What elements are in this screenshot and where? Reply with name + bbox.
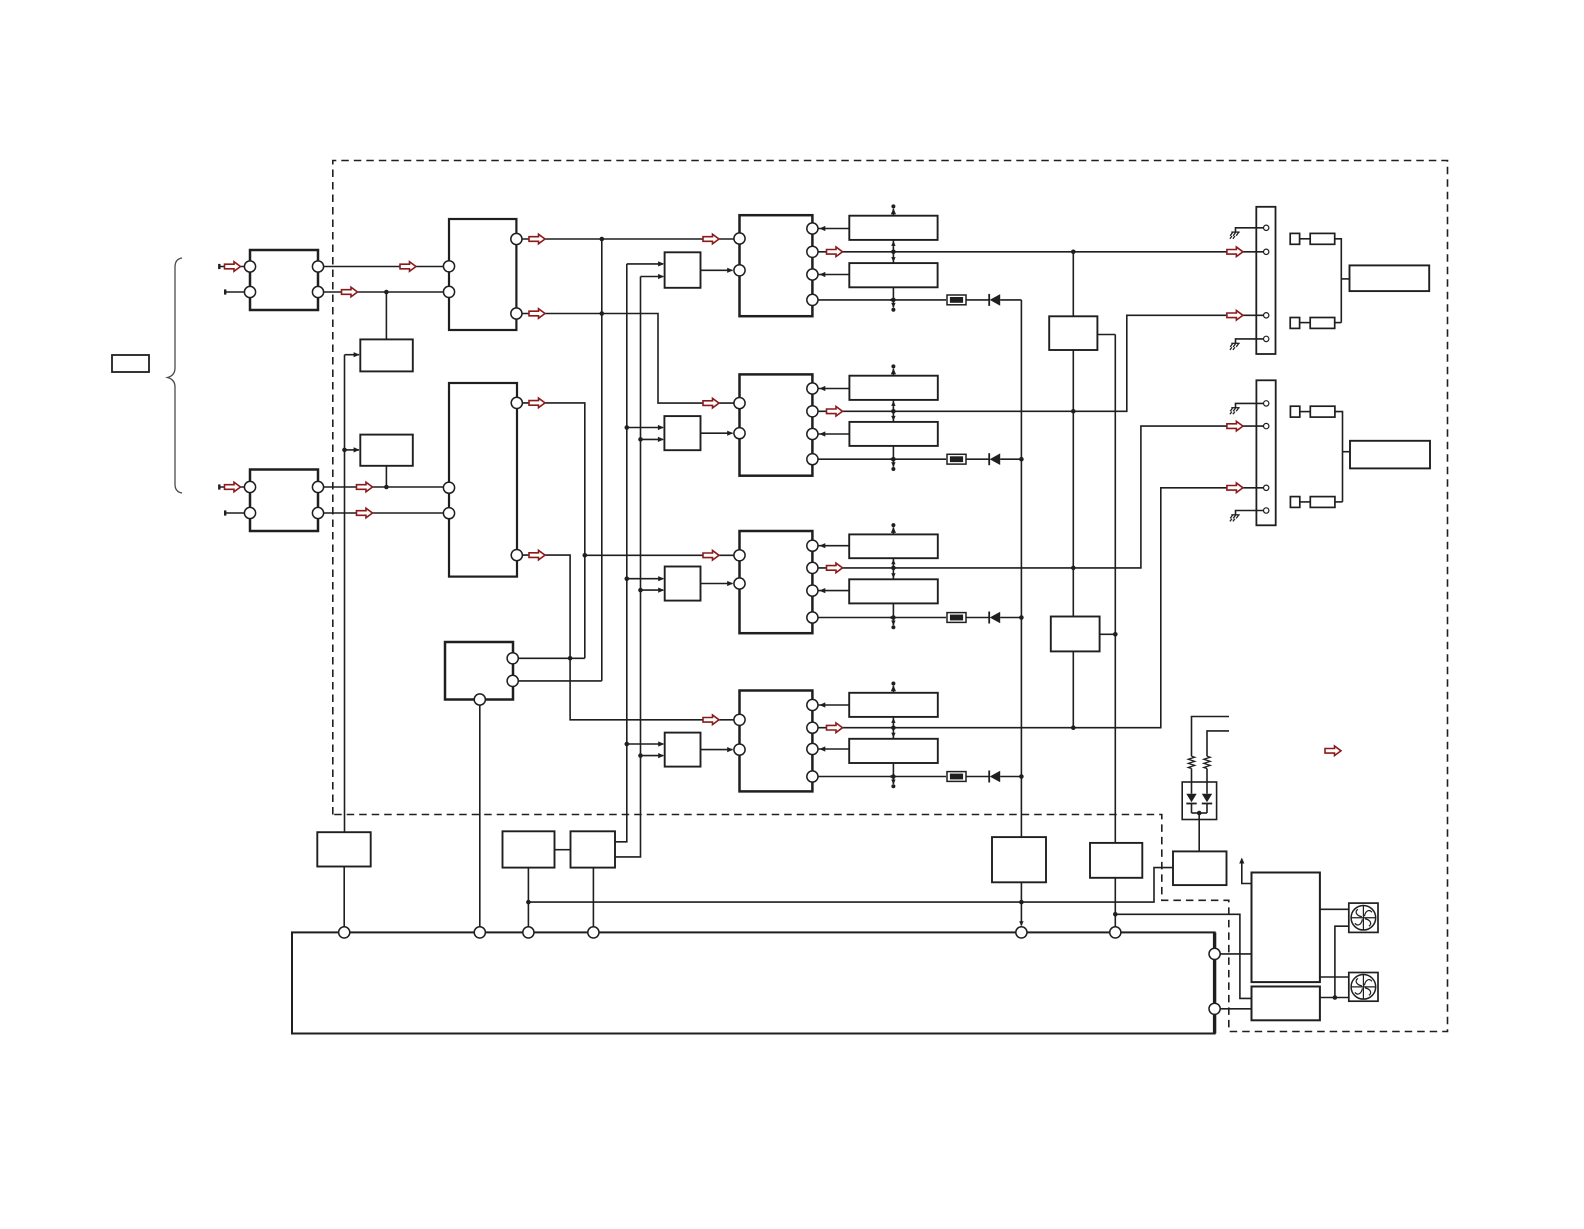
level box LA xyxy=(665,252,701,287)
IC block U2 xyxy=(449,383,517,577)
connector CN1 xyxy=(1256,207,1275,354)
wire bus1 into LB xyxy=(627,427,663,429)
wire X1 out2 to U1 bus xyxy=(518,680,602,682)
wire thermistor stub 1 xyxy=(1192,717,1230,757)
junction RB mid xyxy=(891,409,896,414)
junction bus1 row D xyxy=(625,742,630,747)
protection rail vertical xyxy=(1020,300,1022,837)
wire tap down to box S1 xyxy=(385,292,387,339)
wire K1 to fan1 xyxy=(1320,908,1349,910)
wire K1 to fan2 xyxy=(1320,976,1349,978)
wire square to resistor b xyxy=(1300,322,1311,324)
diode DC xyxy=(988,612,990,624)
junction T3a / comm line xyxy=(526,900,531,905)
junction clock bus row3 xyxy=(583,553,588,558)
wire relay2 feed xyxy=(1115,914,1251,998)
sync box S1 xyxy=(360,339,413,371)
U2 pin circles xyxy=(443,482,454,493)
wire J2 out1 to U2 xyxy=(324,486,443,488)
power stub arrow K1 xyxy=(1242,860,1252,884)
wire QD out to bead xyxy=(818,776,946,778)
junction diode pack xyxy=(1197,811,1202,816)
ground CN2 pin1 xyxy=(1230,408,1240,415)
sync box S2 xyxy=(360,435,413,466)
wire T3b to system box xyxy=(592,868,594,927)
wire LC out to QC xyxy=(701,583,733,585)
junction comm / protection rail xyxy=(1019,900,1024,905)
level box LD xyxy=(665,733,701,767)
signal arrow into J2 pin1 xyxy=(225,482,241,492)
diode DA xyxy=(988,294,990,306)
headphone box H1 xyxy=(1350,265,1430,291)
fan ctrl box T5 xyxy=(1090,843,1142,878)
junction RC low xyxy=(891,615,896,620)
J1 pin circles xyxy=(244,261,255,272)
ground CN1 pin4 xyxy=(1230,343,1240,350)
terminal square CN2 a xyxy=(1290,406,1299,417)
signal arrow QB line out xyxy=(827,407,843,417)
wire S2 to J2 out1 line xyxy=(385,466,387,487)
wire J1 input 1 xyxy=(219,266,244,268)
wire bead to diode DA xyxy=(966,299,989,301)
signal arrow after U2 top-out xyxy=(529,398,545,408)
U1 pin circles xyxy=(443,261,454,272)
wire QA line to connector CN1 xyxy=(818,251,1263,253)
wire resistor d join xyxy=(1335,501,1343,503)
resistor CN2 b xyxy=(1310,497,1335,508)
junction T5 / relay feed xyxy=(1113,912,1118,917)
signal arrow QC line out xyxy=(827,563,843,573)
wire K2 to fan2 xyxy=(1320,997,1349,999)
wire RB1 to QB pin1 xyxy=(819,388,850,390)
wire resistor b join xyxy=(1335,322,1342,324)
CN2 pin4 ground wire xyxy=(1236,511,1264,515)
level box LC xyxy=(665,567,701,601)
wire M2 out right xyxy=(1100,633,1116,635)
junction QB line / relay bus xyxy=(1071,409,1076,414)
wire bead to diode DD xyxy=(966,776,989,778)
wire system to K2 xyxy=(1220,1008,1251,1010)
input jack block J1 xyxy=(250,250,318,310)
power stub above RC1 xyxy=(892,527,894,534)
signal arrow on J2 out1 xyxy=(357,482,373,492)
wire bus2 into LC xyxy=(641,589,664,591)
junction rail row C xyxy=(1019,615,1024,620)
wire LB out to QB xyxy=(701,432,733,434)
wire RD2 to QD pin3 xyxy=(819,748,850,750)
headphone box H2 xyxy=(1350,441,1430,469)
wire bus2 into LA xyxy=(641,276,664,278)
terminal square CN1 a xyxy=(1290,233,1299,244)
comm line to relay area xyxy=(528,868,1173,903)
supply rect RA2 xyxy=(849,263,937,287)
supply rect RD2 xyxy=(849,739,938,763)
junction RD low xyxy=(891,774,896,779)
IC block U1 xyxy=(449,219,516,330)
signal arrow after U2 bottom-out xyxy=(529,550,545,560)
wire fan1 return xyxy=(1335,926,1349,997)
junction U1 out2 / bus xyxy=(600,311,605,316)
wire X1 out1 to clock bus xyxy=(518,657,585,659)
power stub above RD1 xyxy=(892,686,894,693)
signal arrow QD line out xyxy=(827,723,843,733)
junction rail row B xyxy=(1019,457,1024,462)
wire into S2 from bus xyxy=(345,449,360,451)
ground CN1 pin1 xyxy=(1230,232,1240,239)
wire square to resistor c xyxy=(1300,411,1311,413)
signal arrow into CN2 pin2 xyxy=(1227,421,1243,431)
wire bead to diode DB xyxy=(966,458,989,460)
resistor CN1 b xyxy=(1310,318,1335,329)
wire diode to rail xyxy=(1000,776,1021,778)
terminal square CN2 b xyxy=(1290,497,1299,508)
QD pin circles xyxy=(734,714,745,725)
driver IC QA xyxy=(740,215,813,316)
system box right pin circles xyxy=(1209,948,1220,959)
wire LA out to QA xyxy=(701,269,733,271)
junction clock bus block3 xyxy=(568,656,573,661)
arrowhead into S2 xyxy=(354,447,360,452)
wire QA out to bead xyxy=(818,299,946,301)
dashed boundary of main board xyxy=(333,161,1448,1032)
wire J1 out1 to U1 xyxy=(324,266,443,268)
wire RD2 bottom to out line xyxy=(892,763,894,777)
junction RC mid xyxy=(891,566,896,571)
diode DD xyxy=(988,771,990,783)
signal arrow into CN2 pin3 xyxy=(1227,483,1243,493)
diode pack box xyxy=(1182,782,1216,820)
QB pin circles xyxy=(734,398,745,409)
bus U1 to block3 xyxy=(601,239,603,681)
thermistor R2 xyxy=(1204,756,1210,768)
level box LB xyxy=(664,416,700,450)
wire R2 to diode pack xyxy=(1206,769,1208,794)
signal arrow after U1 out1 xyxy=(529,234,545,244)
junction RB low xyxy=(891,457,896,462)
vertical between RA1 RA2 xyxy=(892,240,894,263)
supply rect RA1 xyxy=(849,216,937,240)
signal arrow on J1 out1 xyxy=(400,262,416,272)
wire U2 top-out to driver C xyxy=(523,403,585,658)
supply rect RD1 xyxy=(849,693,938,717)
wire bus1 into LD xyxy=(627,743,663,745)
wire diode to rail xyxy=(1000,299,1021,301)
QA pin circles xyxy=(734,233,745,244)
wire QC out to bead xyxy=(818,617,946,619)
wire J1 input 2 xyxy=(225,291,244,293)
thermistor R1 xyxy=(1188,756,1194,768)
power stub above RB1 xyxy=(892,369,894,376)
bus J1-mute down left side xyxy=(344,355,346,833)
system box top pin circles xyxy=(339,927,350,938)
vertical between RD1 RD2 xyxy=(892,717,894,739)
QC pin circles xyxy=(734,550,745,561)
wire U1 out1 to driver A xyxy=(522,238,734,240)
wire diode to rail xyxy=(1000,617,1021,619)
diode pack join wires xyxy=(1191,804,1193,814)
junction bus1 row C xyxy=(625,576,630,581)
junction U1 out1 / bus xyxy=(600,237,605,242)
wire LD out to QD xyxy=(701,749,733,751)
junction S2 output tap xyxy=(384,485,389,490)
signal arrow before driver D in1 xyxy=(703,715,719,725)
wire resistor a to headphone box xyxy=(1335,239,1342,323)
J2 pin circles xyxy=(244,481,255,492)
wire X1 bottom to system box xyxy=(479,705,481,927)
power stub above RA1 xyxy=(892,209,894,216)
mute box M2 xyxy=(1051,617,1100,652)
relay bus through M1 xyxy=(1072,252,1074,316)
diode D6 xyxy=(1202,794,1212,803)
relay box K2 xyxy=(1252,987,1320,1021)
wire resistor c to headphone box xyxy=(1335,412,1343,502)
junction rail row D xyxy=(1019,774,1024,779)
junction M2 bus xyxy=(1113,632,1118,637)
protect box T4 xyxy=(992,837,1046,882)
connector CN2 xyxy=(1256,380,1275,525)
supply rect RC1 xyxy=(849,534,938,558)
wire T5 to system box xyxy=(1114,878,1116,927)
wire RA2 bottom to out line xyxy=(892,287,894,300)
wire QC line to CN2 pin2 xyxy=(818,426,1263,568)
diode D5 xyxy=(1186,794,1196,803)
junction bus2 row C xyxy=(638,588,643,593)
relay box K1 xyxy=(1252,873,1320,983)
signal arrow QA line out xyxy=(827,247,843,257)
resistor CN1 a xyxy=(1310,233,1335,244)
wire RA2 to QA pin3 xyxy=(819,274,850,276)
ground CN2 pin4 xyxy=(1230,515,1240,522)
junction bus2 row B xyxy=(638,437,643,442)
mute bus vertical xyxy=(1114,335,1116,843)
control bus 1 vertical xyxy=(615,264,627,842)
CN2 pin circles xyxy=(1264,401,1269,406)
wire bus2 into LB xyxy=(641,438,663,440)
wire J2 input 2 xyxy=(225,512,244,514)
wire QB out to bead xyxy=(818,458,946,460)
CN2 pin1 ground wire xyxy=(1236,403,1264,407)
signal arrow before driver A in1 xyxy=(703,234,719,244)
signal arrow on J2 out2 xyxy=(357,508,373,518)
clock block X1 xyxy=(445,642,513,700)
CN1 pin4 ground wire xyxy=(1236,339,1264,343)
arrowhead into S1 xyxy=(354,352,360,357)
reg box T1 xyxy=(317,832,370,866)
signal arrow spare net xyxy=(1325,746,1341,756)
driver IC QC xyxy=(740,531,813,633)
driver IC QB xyxy=(740,374,813,475)
wire QD line to CN2 pin3 xyxy=(818,488,1263,728)
system control box xyxy=(292,932,1215,1033)
junction QC line / relay bus xyxy=(1071,566,1076,571)
vertical between RB1 RB2 xyxy=(892,400,894,422)
signal arrow before driver B in1 xyxy=(703,398,719,408)
supply rect RB2 xyxy=(849,422,937,446)
signal arrow into CN1 pin2 xyxy=(1227,247,1243,257)
stub below junction C xyxy=(892,618,894,626)
signal arrow before driver C in1 xyxy=(703,551,719,561)
mute box M1 xyxy=(1049,316,1097,350)
wire bead to diode DC xyxy=(966,617,989,619)
wire RD1 to QD pin1 xyxy=(819,704,850,706)
junction bus2 row D xyxy=(638,753,643,758)
signal arrow into CN1 pin3 xyxy=(1227,311,1243,321)
junction QA line / relay bus xyxy=(1071,250,1076,255)
wire bus1 into LC xyxy=(627,578,663,580)
CN1 pin1 ground wire xyxy=(1236,228,1264,232)
junction QD line / relay bus xyxy=(1071,725,1076,730)
stub to headphone box 1 xyxy=(1341,278,1349,280)
wire thermistor stub 2 xyxy=(1207,731,1229,756)
wire into S1 from bus xyxy=(345,354,360,356)
wire M1 out right xyxy=(1097,334,1115,336)
label box (legend) xyxy=(112,355,149,372)
stub below junction A xyxy=(892,300,894,308)
brace grouping inputs xyxy=(168,258,183,493)
wire rail into T4 exit to system box xyxy=(1020,882,1022,925)
wire bus2 into LD xyxy=(641,755,664,757)
wire J2 out2 to U2 xyxy=(324,512,443,514)
CN1 pin circles xyxy=(1264,225,1269,230)
wire R1 to diode pack xyxy=(1191,769,1193,794)
input jack block J2 xyxy=(250,470,318,532)
wire J2 input 1 xyxy=(219,486,244,488)
wire RC1 to QC pin1 xyxy=(819,545,850,547)
junction bus S2 tap xyxy=(342,448,347,453)
junction fan return xyxy=(1333,995,1338,1000)
wire T3a-T3b link xyxy=(555,849,571,851)
junction bus1 row B xyxy=(625,425,630,430)
stub to headphone box 2 xyxy=(1343,451,1351,453)
wire RC2 to QC pin3 xyxy=(819,590,850,592)
fan FAN1 xyxy=(1349,903,1378,932)
wire T1 to system box xyxy=(343,867,345,927)
wire RB2 bottom to out line xyxy=(892,446,894,459)
wire diode to rail xyxy=(1000,458,1021,460)
wire RA1 to QA pin1 xyxy=(819,228,850,230)
resistor CN2 a xyxy=(1310,406,1335,417)
wire U1 out2 xyxy=(522,314,734,404)
wire system to K1 xyxy=(1220,953,1251,955)
wire square to resistor d xyxy=(1300,501,1311,503)
wire bus1 into LA xyxy=(627,263,663,265)
vertical between RC1 RC2 xyxy=(892,558,894,579)
driver IC QD xyxy=(740,691,813,792)
signal arrow on J1 out2 xyxy=(342,287,358,297)
stub below junction D xyxy=(892,777,894,785)
junction RD mid xyxy=(891,725,896,730)
wire row3 input from bus xyxy=(585,554,734,556)
wire U2 bottom-out to driver D xyxy=(523,555,734,720)
reg box T3b xyxy=(571,831,616,867)
stub below junction B xyxy=(892,459,894,467)
supply rect RB1 xyxy=(849,376,937,400)
thermal box T6 xyxy=(1173,851,1227,885)
junction RA low xyxy=(891,298,896,303)
wire RC2 bottom to out line xyxy=(892,603,894,617)
signal arrow after U1 out2 xyxy=(529,309,545,319)
control bus 2 vertical xyxy=(615,277,641,857)
ferrite bead FBB xyxy=(947,454,966,464)
wire T3a to system box xyxy=(527,868,529,927)
supply rect RC2 xyxy=(849,579,938,603)
X1 pin circles xyxy=(507,653,518,664)
wire QB line to CN1 pin3 xyxy=(818,315,1263,411)
junction J1 out2 tap xyxy=(384,290,389,295)
ferrite bead FBD xyxy=(947,772,966,782)
signal arrow into J1 pin1 xyxy=(225,262,241,272)
fan FAN2 xyxy=(1349,973,1378,1002)
wire diode pack to T6 xyxy=(1198,813,1200,851)
wire RB2 to QB pin3 xyxy=(819,433,850,435)
wire J1 out2 to U1 xyxy=(324,291,443,293)
ferrite bead FBC xyxy=(947,613,966,623)
terminal square CN1 b xyxy=(1290,318,1299,329)
ferrite bead FBA xyxy=(947,295,966,305)
diode DB xyxy=(988,453,990,465)
junction RA mid xyxy=(891,250,896,255)
system box thick right edge xyxy=(1213,932,1216,1033)
reg box T3a xyxy=(503,831,555,867)
wire square to resistor a xyxy=(1300,238,1311,240)
